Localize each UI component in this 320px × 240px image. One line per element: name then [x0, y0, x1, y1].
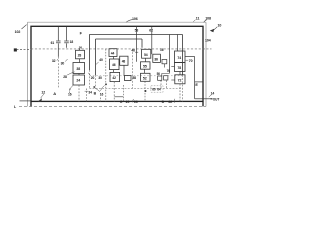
- wire box28 to box38: [79, 59, 81, 63]
- svg-text:11: 11: [196, 17, 200, 21]
- wire box38 to box24: [78, 74, 80, 76]
- amplifier block top edge: [89, 34, 182, 36]
- svg-text:L: L: [14, 105, 17, 109]
- output stage vertical wire: [194, 57, 196, 99]
- inner module border rect 102: [31, 26, 203, 101]
- dashed continuation of wire1: [57, 57, 59, 89]
- wire 62: [151, 26, 153, 54]
- svg-text:72: 72: [178, 78, 182, 82]
- leader for 20: [88, 73, 90, 75]
- wire 78 to 72: [179, 72, 181, 75]
- svg-text:46: 46: [131, 48, 135, 52]
- input dashed lead: [17, 49, 32, 51]
- svg-text:OUT: OUT: [213, 98, 220, 102]
- box 42: [110, 72, 120, 81]
- junction dot: [93, 86, 95, 88]
- svg-text:74: 74: [177, 56, 181, 60]
- svg-text:52: 52: [143, 76, 147, 80]
- wire to output stage: [185, 56, 195, 58]
- right border extension: [202, 102, 204, 107]
- svg-text:34: 34: [88, 91, 92, 95]
- inner block top edge: [96, 38, 143, 40]
- wire 55 to 52: [144, 69, 146, 73]
- wire2 lower segment: [66, 43, 68, 47]
- inner block right edge: [141, 39, 143, 48]
- wire 44 to 40: [113, 57, 115, 60]
- ground stub d: [122, 85, 124, 102]
- svg-text:E: E: [195, 83, 198, 87]
- svg-text:58: 58: [132, 76, 136, 80]
- wire1 lower segment: [57, 43, 59, 56]
- box 36: [153, 54, 161, 62]
- arrowhead w: [38, 98, 42, 102]
- leader for 28 pointer: [67, 72, 74, 75]
- capacitor bars wire1: [56, 40, 61, 42]
- dashed divider: [132, 49, 134, 89]
- svg-text:16: 16: [68, 92, 72, 96]
- output terminal tick: [211, 98, 213, 100]
- wire 58: [136, 26, 138, 62]
- output wire: [195, 98, 211, 100]
- svg-text:78: 78: [177, 66, 181, 70]
- svg-text:10: 10: [218, 24, 222, 28]
- svg-text:102: 102: [15, 30, 21, 34]
- stage rail dashed: [89, 75, 182, 77]
- dashed stub outside right border: [203, 48, 212, 50]
- leader for 108: [204, 20, 207, 23]
- wire box28 top: [79, 49, 81, 50]
- svg-text:A: A: [53, 91, 56, 96]
- box 40: [110, 59, 120, 70]
- svg-text:70: 70: [189, 59, 193, 63]
- long vertical wire: [168, 35, 170, 74]
- box 55: [141, 62, 151, 69]
- box 78: [175, 63, 186, 72]
- leader dot to 16: [95, 88, 100, 92]
- label 60: [151, 86, 163, 92]
- capacitor bars wire2: [64, 40, 69, 42]
- leader for 30: [65, 59, 67, 62]
- svg-text:28: 28: [63, 75, 67, 79]
- wire 54 to 55: [145, 58, 147, 62]
- amplifier block bottom dashed: [89, 88, 182, 90]
- amplifier block left edge lower dashed: [88, 70, 90, 89]
- svg-text:16: 16: [160, 48, 164, 52]
- ground stub below 72: [179, 84, 181, 102]
- svg-text:44: 44: [111, 52, 115, 56]
- svg-text:38: 38: [76, 67, 80, 71]
- inner block left edge: [95, 39, 97, 75]
- svg-text:20: 20: [91, 76, 95, 80]
- svg-text:76: 76: [167, 69, 171, 73]
- svg-text:66: 66: [134, 100, 138, 104]
- svg-text:30: 30: [61, 62, 65, 66]
- box 38: [73, 63, 85, 74]
- ground stub b: [85, 89, 87, 102]
- svg-text:64: 64: [157, 88, 161, 92]
- ground stub f: [160, 81, 162, 89]
- wire 40 to 42: [113, 70, 115, 73]
- box 44: [109, 49, 117, 57]
- paren tick: [173, 99, 176, 103]
- leader for 14: [209, 95, 212, 97]
- wire from top border 2: [66, 26, 68, 40]
- outer boundary right edge: [205, 22, 207, 106]
- svg-text:28: 28: [78, 54, 82, 58]
- svg-text:36: 36: [154, 58, 158, 62]
- leader for 12: [41, 94, 44, 98]
- box 52: [141, 73, 151, 81]
- svg-text:40: 40: [99, 58, 103, 62]
- slash tick: [132, 99, 133, 102]
- amplifier block right edge: [182, 35, 184, 76]
- svg-text:32: 32: [52, 59, 56, 63]
- leader for 32: [57, 59, 58, 61]
- junction dot bottom: [144, 90, 146, 92]
- capacitor pair left: [158, 76, 162, 80]
- inner block left edge dashed: [95, 75, 97, 89]
- box 28: [76, 50, 85, 59]
- wire into box 74: [177, 35, 179, 52]
- svg-text:12: 12: [41, 90, 45, 94]
- tick for 70: [186, 59, 189, 61]
- output box top: [195, 81, 203, 83]
- box 24: [73, 75, 85, 85]
- svg-text:24: 24: [76, 79, 80, 83]
- svg-text:104: 104: [205, 38, 211, 42]
- wire below small box: [163, 64, 165, 68]
- capacitor pair right: [164, 76, 168, 80]
- svg-text:C: C: [120, 100, 123, 104]
- arc for 16 mid: [100, 85, 104, 90]
- outer boundary bottom edge (dashed): [19, 105, 206, 107]
- wire 48 down: [123, 65, 125, 75]
- outer boundary top edge: [28, 21, 207, 23]
- svg-text:61: 61: [51, 41, 55, 45]
- svg-text:22: 22: [168, 100, 172, 104]
- svg-text:30: 30: [98, 76, 102, 80]
- arrowhead for 10: [210, 29, 214, 32]
- box 50: [162, 60, 167, 64]
- svg-text:20: 20: [126, 100, 130, 104]
- svg-text:26: 26: [79, 45, 83, 49]
- bracket to capacitors: [162, 74, 170, 77]
- box 54: [142, 49, 151, 58]
- svg-text:55: 55: [143, 64, 147, 68]
- leader for 106: [126, 20, 133, 23]
- terminal wire L: [20, 100, 32, 102]
- leader tick for 11: [193, 20, 195, 22]
- svg-text:16: 16: [100, 92, 104, 96]
- svg-text:B: B: [94, 91, 97, 95]
- svg-text:60: 60: [152, 88, 156, 92]
- input terminal IN: [14, 48, 17, 51]
- box 74: [175, 51, 186, 63]
- svg-text:54: 54: [144, 53, 148, 57]
- wire from top border 1: [57, 26, 59, 40]
- svg-text:106: 106: [132, 17, 138, 21]
- left border extension: [30, 102, 32, 107]
- ground stub g: [166, 81, 168, 89]
- internal dashed bus line: [31, 48, 203, 50]
- outer boundary left edge: [27, 22, 29, 106]
- svg-text:D: D: [162, 100, 165, 104]
- svg-text:42: 42: [112, 76, 116, 80]
- svg-text:50: 50: [157, 72, 161, 76]
- ground stub a: [69, 89, 71, 94]
- ground stub below 42: [113, 82, 115, 102]
- arrow for 10: [214, 27, 218, 30]
- leader for 102: [22, 25, 27, 29]
- amplifier block left edge: [88, 35, 90, 71]
- svg-text:48: 48: [122, 60, 126, 64]
- svg-text:18: 18: [70, 40, 74, 44]
- ground stub e: [144, 81, 146, 102]
- box 72: [175, 75, 185, 84]
- svg-text:F: F: [80, 31, 83, 35]
- svg-text:62: 62: [149, 29, 153, 33]
- box 48: [120, 56, 128, 65]
- box below 48: [125, 76, 132, 81]
- ground stub below box24: [78, 85, 80, 102]
- svg-text:46: 46: [112, 63, 116, 67]
- ground stub c: [100, 98, 102, 102]
